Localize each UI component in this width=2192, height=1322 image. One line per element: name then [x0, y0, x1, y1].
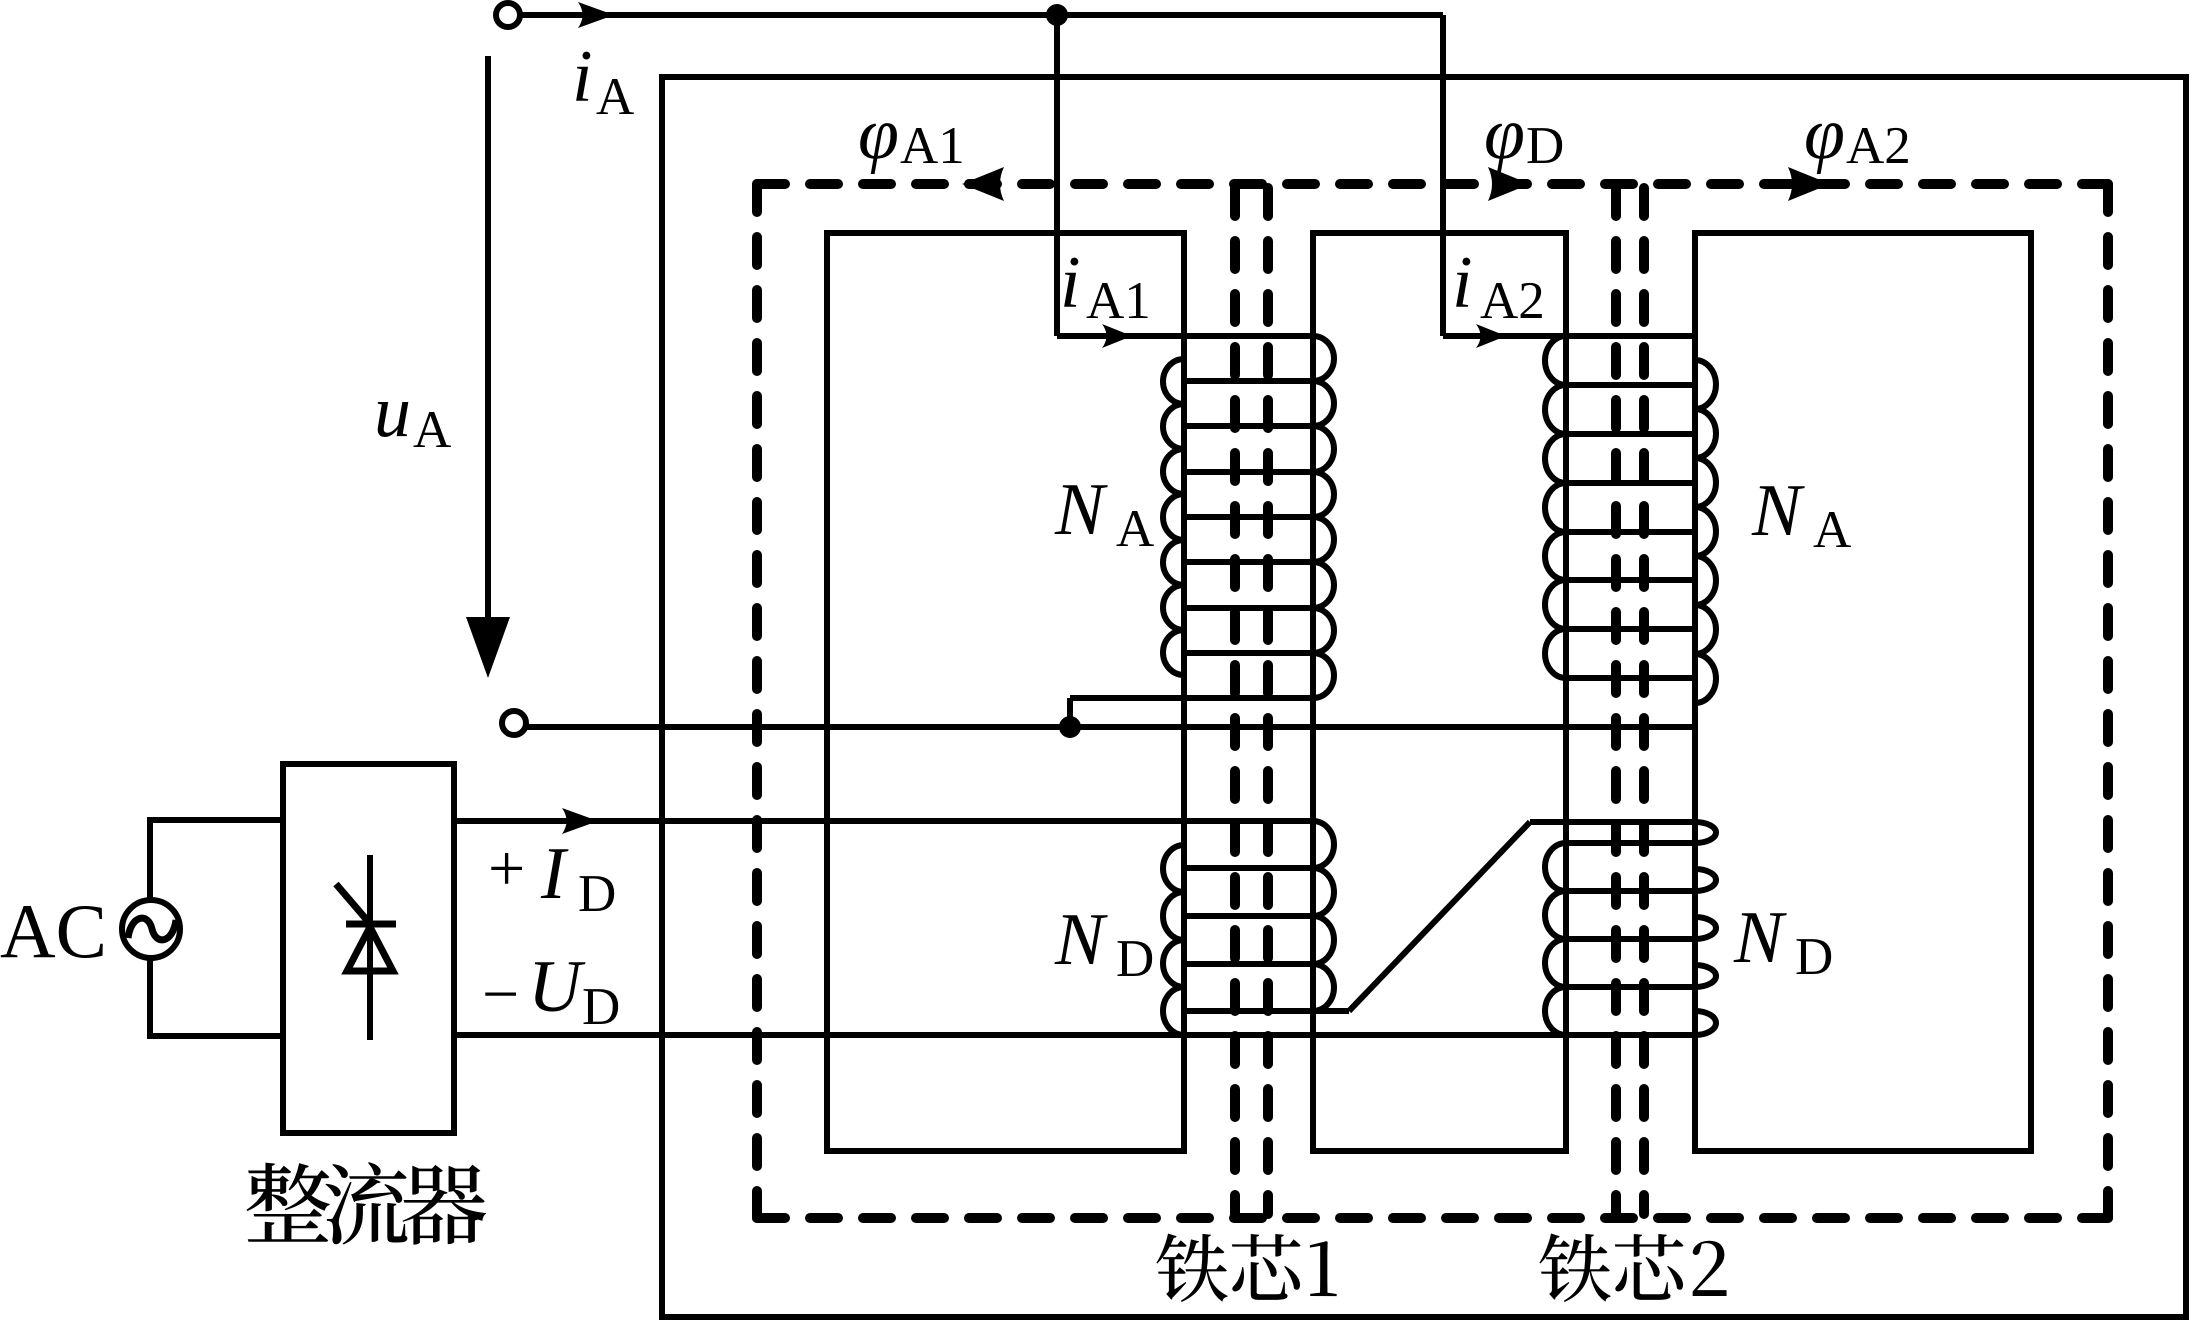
winding NA core1 right arcs: [1313, 336, 1334, 698]
svg-text:φ: φ: [1484, 93, 1525, 175]
winding ND core2 bottom rung (on -UD wire): [1566, 1032, 1695, 1038]
winding NA on core 1: entry rung with iA1: [1057, 333, 1313, 339]
svg-text:φ: φ: [1804, 93, 1845, 175]
core 1 limb dashed line right: [1263, 188, 1273, 1214]
NA1 coil exit tap vertical: [1067, 698, 1073, 727]
winding ND core1 rungs: [1184, 821, 1313, 1011]
middle output wire: [526, 724, 1566, 730]
svg-text:A: A: [1116, 500, 1154, 558]
svg-text:D: D: [1526, 117, 1564, 175]
flux arrow phiA1 (pointing left): [962, 167, 1004, 201]
winding NA core1 exit rung: [1070, 695, 1313, 701]
svg-text:i: i: [1060, 242, 1081, 324]
svg-text:A: A: [1813, 501, 1851, 559]
svg-text:U: U: [528, 946, 586, 1028]
svg-text:D: D: [1116, 930, 1154, 988]
uA arrowhead: [466, 617, 510, 678]
flux arrow phiA2 (pointing right): [1788, 167, 1830, 201]
svg-text:A: A: [596, 68, 634, 126]
svg-text:+: +: [488, 832, 525, 905]
core 2 limb dashed line left: [1611, 188, 1621, 1214]
top wire iA: [521, 12, 1443, 18]
wire drop to iA2: [1440, 15, 1446, 336]
thyristor gate diagonal: [336, 884, 372, 926]
-UD return wire: [454, 1032, 1566, 1038]
core 1 limb dashed line left: [1230, 188, 1240, 1214]
svg-text:A1: A1: [900, 117, 965, 175]
svg-text:D: D: [578, 865, 616, 923]
winding ND core2 rungs: [1566, 843, 1695, 987]
svg-text:D: D: [1795, 928, 1833, 986]
winding NA core1 rungs: [1184, 381, 1313, 653]
svg-text:A2: A2: [1480, 272, 1545, 330]
svg-text:i: i: [572, 36, 593, 118]
label rectifier (zheng liu qi): [247, 1162, 486, 1244]
series link diagonal ND1-ND2: [1349, 822, 1530, 1011]
winding NA on core 2: entry rung with iA2: [1443, 333, 1695, 339]
svg-text:u: u: [374, 371, 411, 453]
winding ND core1 left arcs: [1163, 845, 1184, 1035]
arrow iA1: [1102, 324, 1132, 348]
svg-text:D: D: [582, 978, 620, 1036]
svg-text:A1: A1: [1086, 272, 1151, 330]
junction node on top wire: [1046, 4, 1068, 26]
svg-text:N: N: [1751, 470, 1805, 552]
svg-text:i: i: [1452, 242, 1473, 324]
svg-text:I: I: [540, 833, 569, 915]
center window rectangle between core 1 and core 2: [1313, 233, 1566, 1151]
core 2 right window rectangle: [1695, 233, 2031, 1151]
thyristor triangle: [347, 927, 393, 971]
output terminal circle (middle): [502, 711, 526, 735]
svg-text:AC: AC: [0, 888, 107, 974]
label iron core 1 (tie xin 1): [1156, 1233, 1336, 1302]
+ID wire from rectifier: [454, 818, 1184, 824]
AC source wire top: [150, 817, 283, 823]
winding NA core2 right arcs: [1695, 360, 1716, 703]
flux arrow phiD (pointing right): [1488, 167, 1530, 201]
arrow iA: [578, 2, 614, 28]
label iron core 2 (tie xin 2): [1539, 1233, 1726, 1302]
winding ND core2 left arcs: [1545, 843, 1566, 1035]
flux loop phiA2 right dashed side: [2103, 184, 2113, 1218]
winding ND core1 right arcs: [1313, 821, 1334, 1011]
thyristor bar: [346, 921, 396, 928]
ND core1 bottom rung extension: [1313, 1008, 1349, 1014]
winding NA core2 left arcs: [1545, 336, 1566, 678]
AC source circle: [122, 900, 180, 958]
thyristor cathode lead: [367, 855, 373, 1040]
svg-text:A2: A2: [1846, 117, 1911, 175]
input terminal circle (top): [496, 3, 520, 27]
rectifier box U1: [283, 764, 454, 1133]
arrow ID: [562, 808, 598, 834]
svg-text:N: N: [1733, 897, 1787, 979]
winding ND core2 right hook arcs: [1695, 822, 1716, 1035]
core 2 limb dashed line right: [1639, 188, 1649, 1214]
svg-text:A: A: [413, 401, 451, 459]
winding NA core2 bottom rung: [1566, 724, 1695, 730]
flux loop phiA1 left dashed side: [752, 184, 762, 1218]
uA reference arrow line: [485, 56, 491, 645]
svg-text:N: N: [1054, 899, 1108, 981]
flux loop top dashed line: [757, 179, 2108, 189]
winding NA core1 left arcs: [1163, 359, 1184, 675]
arrow iA2: [1476, 324, 1506, 348]
junction node on middle wire: [1059, 716, 1081, 738]
AC source sine symbol: [128, 918, 176, 940]
outer winding-circuit rectangle: [662, 77, 2186, 1317]
svg-text:N: N: [1054, 469, 1108, 551]
svg-text:φ: φ: [858, 93, 899, 175]
AC source wire left upper vertical: [147, 817, 153, 900]
AC source wire bottom: [150, 1033, 283, 1039]
flux loop bottom dashed line: [757, 1213, 2108, 1223]
winding NA core2 rungs: [1566, 385, 1695, 678]
svg-text:−: −: [482, 958, 519, 1031]
AC source wire left lower vertical: [147, 958, 153, 1039]
core 1 left window rectangle: [827, 233, 1184, 1151]
wire drop to iA1: [1054, 15, 1060, 336]
series link horizontal into ND2: [1530, 819, 1695, 825]
